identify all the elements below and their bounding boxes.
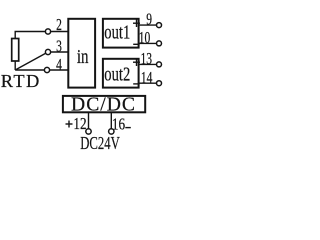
svg-text:out1: out1 [104, 20, 130, 43]
svg-text:DC/DC: DC/DC [71, 94, 136, 115]
svg-text:4: 4 [56, 56, 62, 75]
svg-text:12: 12 [73, 116, 86, 134]
svg-text:DC24V: DC24V [80, 134, 120, 154]
svg-text:9: 9 [146, 10, 152, 29]
svg-text:13: 13 [141, 50, 153, 69]
svg-text:14: 14 [141, 69, 153, 88]
svg-text:out2: out2 [104, 62, 130, 85]
svg-text:RTD: RTD [1, 71, 41, 91]
svg-text:3: 3 [56, 37, 62, 56]
svg-text:10: 10 [139, 29, 151, 48]
svg-text:in: in [77, 45, 89, 68]
svg-text:16: 16 [112, 116, 126, 134]
svg-text:2: 2 [56, 16, 62, 35]
